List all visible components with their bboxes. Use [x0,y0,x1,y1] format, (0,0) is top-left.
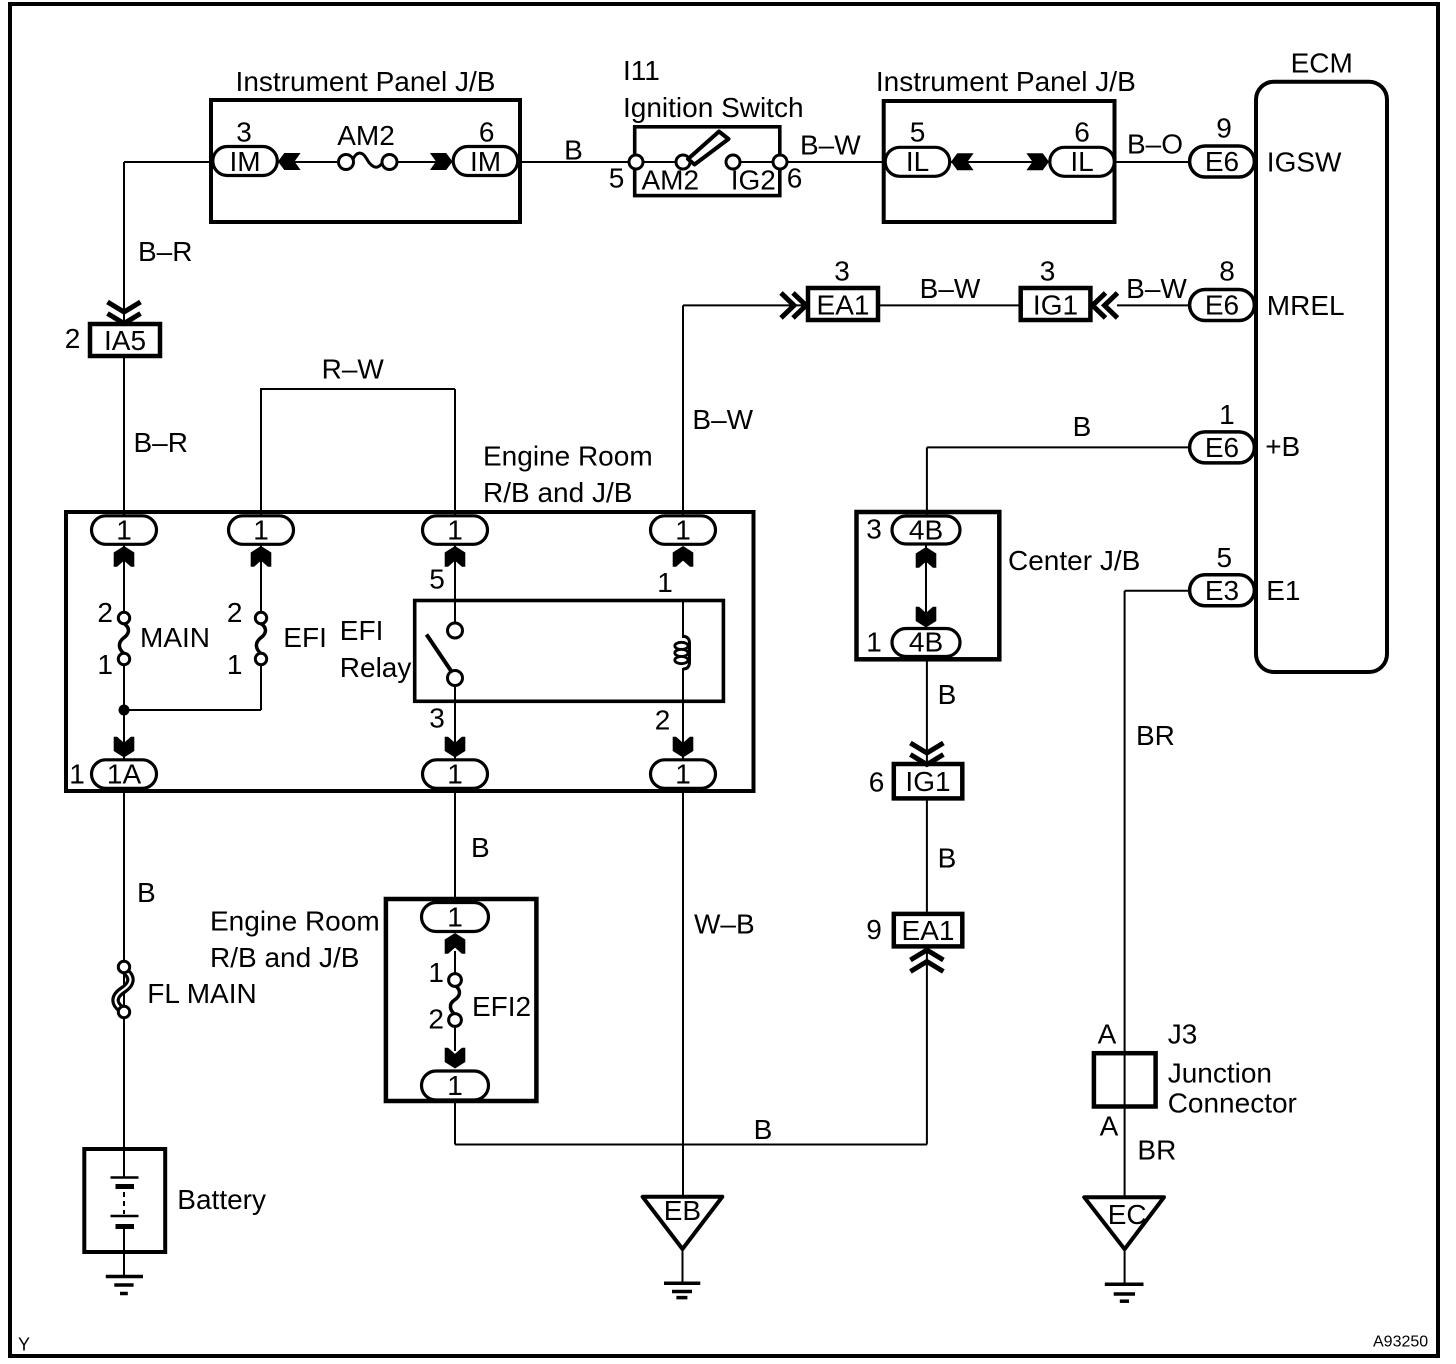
wire (EFI column inside J/B) [260,516,262,710]
svg-text:B: B [137,877,156,908]
svg-text:+B: +B [1265,431,1300,462]
svg-text:3: 3 [236,117,252,148]
connector 1 (relay coil feed) [651,515,716,567]
svg-text:1: 1 [253,515,269,546]
svg-text:Junction: Junction [1168,1057,1272,1088]
svg-text:1: 1 [447,902,463,933]
svg-text:2: 2 [97,597,113,628]
connector 4B pin 3 [866,514,960,568]
svg-text:MREL: MREL [1267,290,1345,321]
svg-text:J3: J3 [1168,1019,1198,1050]
wire B-O (IL pin6 to ECM IGSW) [1114,129,1190,162]
ground (battery) [106,1277,143,1294]
wire B (IM pin6 to ignition switch) [520,135,636,166]
ground EC [1084,1197,1164,1301]
wire B (battery to Engine Room J/B) [124,774,156,1178]
junction block: Center J/B [857,512,1141,659]
wire B-W (IG1 to EA1) [878,273,1021,305]
svg-text:2: 2 [65,323,81,354]
connector 4B pin 1 [866,607,960,658]
svg-text:6: 6 [787,162,803,193]
ECM [1256,47,1387,672]
svg-text:2: 2 [655,705,671,736]
svg-text:1: 1 [866,627,882,658]
battery [84,1149,266,1277]
wire (relay contact column) [454,516,456,760]
connector IG1 pin 6 [869,743,963,798]
svg-text:3: 3 [429,702,445,733]
svg-text:1: 1 [675,759,691,790]
svg-text:R–W: R–W [322,354,385,385]
wire (Center J/B internal) [925,530,927,642]
svg-text:IM: IM [470,146,501,177]
svg-text:IGSW: IGSW [1267,147,1342,178]
svg-text:B–R: B–R [138,236,192,267]
connector EA1 pin 3 (MREL row) [781,255,878,320]
svg-text:R/B and J/B: R/B and J/B [210,942,359,973]
wire (inside right J/B, between IL ovals) [948,161,1051,163]
connector 1 (relay contact out) [423,737,488,790]
svg-text:A: A [1100,1111,1119,1142]
ECM pin 9 E6 IGSW [1190,113,1342,178]
relay: EFI Relay [340,564,724,736]
svg-text:2: 2 [428,1004,444,1035]
fusible link EFI [227,597,327,680]
svg-text:1A: 1A [107,759,142,790]
svg-text:W–B: W–B [694,909,755,940]
svg-text:5: 5 [910,117,926,148]
wire BR (ECM E1 to junction connector J3) [1125,591,1190,1197]
connector 1 (relay contact feed) [423,515,488,567]
fusible link MAIN [97,597,210,680]
svg-text:9: 9 [866,914,882,945]
svg-text:BR: BR [1136,720,1175,751]
wire B (relay contact to EFI2) [455,774,490,917]
wire B (EFI2 to EA1 pin9) [455,946,927,1145]
svg-text:1: 1 [447,1070,463,1101]
svg-text:Relay: Relay [340,652,412,683]
svg-text:Instrument Panel J/B: Instrument Panel J/B [236,66,496,97]
connector IL pin 5 [885,117,973,178]
junction block: Instrument Panel J/B (left) [211,66,520,222]
connector EA1 pin 9 [866,914,962,972]
junction block: Instrument Panel J/B (right) [876,66,1136,222]
ECM pin 8 E6 MREL [1190,255,1345,321]
svg-text:3: 3 [1040,255,1056,286]
svg-text:1: 1 [447,759,463,790]
wire (inside ignition switch) [636,161,780,163]
ECM pin 5 E3 E1 [1190,542,1301,606]
svg-text:IL: IL [906,146,929,177]
wire (MAIN column inside J/B) [123,516,125,760]
svg-text:IA5: IA5 [104,325,146,356]
svg-text:FL MAIN: FL MAIN [147,978,256,1009]
svg-text:Ignition Switch: Ignition Switch [623,92,804,123]
wire B-R (IA5 to Engine Room J/B) [124,358,188,516]
svg-text:IG1: IG1 [905,766,950,797]
svg-text:IG1: IG1 [1033,290,1078,321]
svg-text:EA1: EA1 [817,290,870,321]
svg-text:EB: EB [664,1195,701,1226]
svg-text:5: 5 [429,564,445,595]
junction block: Engine Room R/B and J/B (second) [210,899,536,1101]
svg-text:I11: I11 [623,55,660,86]
svg-text:A: A [1098,1019,1117,1050]
fuse AM2 [337,120,397,170]
svg-text:BR: BR [1137,1135,1176,1166]
svg-text:EFI: EFI [340,615,384,646]
svg-text:3: 3 [834,255,850,286]
junction block: Engine Room R/B and J/B [66,440,754,791]
svg-text:B: B [938,843,957,874]
wire R-W (EFI fuse to relay contact pin5) [260,354,455,530]
svg-text:B: B [471,832,490,863]
svg-text:Engine Room: Engine Room [210,906,380,937]
connector 1 (relay coil out) [651,737,716,790]
connector IG1 pin 3 (MREL row) [1021,255,1118,320]
svg-text:IL: IL [1070,146,1093,177]
wire W-B (relay coil pin2 to ground EB) [683,668,755,1197]
junction connector J3 [1094,1019,1297,1142]
svg-text:1: 1 [447,515,463,546]
svg-text:6: 6 [479,117,495,148]
svg-text:Instrument Panel J/B: Instrument Panel J/B [876,66,1136,97]
svg-text:4B: 4B [909,627,943,658]
wire BR (J3 to ground EC) [1137,1135,1176,1166]
switch I11 Ignition Switch [609,55,804,196]
svg-text:EA1: EA1 [902,915,955,946]
ECM pin 1 E6 +B [1190,399,1301,463]
svg-text:1: 1 [428,957,444,988]
svg-text:5: 5 [609,162,625,193]
junction node (MAIN/EFI link) [119,705,262,716]
svg-text:1: 1 [69,759,85,790]
svg-text:E3: E3 [1205,575,1239,606]
wire (inside left J/B, IM to fuse AM2) [277,161,453,163]
ground EB [643,1195,723,1298]
svg-text:B–W: B–W [800,130,861,161]
svg-text:1: 1 [97,649,113,680]
svg-text:B: B [1073,411,1092,442]
svg-text:AM2: AM2 [337,120,395,151]
svg-text:EFI2: EFI2 [472,991,531,1022]
svg-text:1: 1 [675,515,691,546]
svg-text:E1: E1 [1266,575,1300,606]
svg-text:3: 3 [866,514,882,545]
svg-text:B: B [754,1114,773,1145]
svg-text:9: 9 [1216,113,1232,144]
svg-text:Engine Room: Engine Room [483,440,653,471]
connector IM pin 6 [430,117,518,178]
svg-text:4B: 4B [909,515,943,546]
note Y [18,1335,30,1355]
svg-text:6: 6 [1074,117,1090,148]
wire B-W (ignition switch to IL pin5) [780,130,887,162]
connector 1A pin 1 [69,737,156,790]
svg-text:AM2: AM2 [642,165,700,196]
wire B-W (ECM MREL to IG1) [1117,273,1190,305]
svg-text:B–R: B–R [134,427,188,458]
wire B (Center J/B 4B to IG1) [927,659,956,764]
svg-text:E6: E6 [1205,146,1239,177]
note A93250 [1373,1333,1428,1350]
connector 1 (EFI feed) [229,515,294,567]
svg-text:1: 1 [227,649,243,680]
fusible link EFI2 [428,951,531,1051]
svg-text:6: 6 [869,766,885,797]
svg-text:1: 1 [657,567,673,598]
svg-text:B–W: B–W [920,273,981,304]
svg-text:B–O: B–O [1127,129,1183,160]
svg-text:IM: IM [229,146,260,177]
connector 1 (EFI2 out) [422,1048,489,1101]
connector IM pin 3 [213,117,301,178]
connector 1 (EFI2 in) [422,902,489,954]
svg-text:E6: E6 [1205,290,1239,321]
svg-text:Center J/B: Center J/B [1008,545,1140,576]
svg-text:ECM: ECM [1291,47,1353,78]
connector 1 (MAIN feed) [92,515,157,567]
wire B-R (IM pin3 to IA5) [124,162,213,324]
svg-text:5: 5 [1217,542,1233,573]
svg-text:2: 2 [227,597,243,628]
svg-text:B: B [938,679,957,710]
svg-text:E6: E6 [1205,432,1239,463]
svg-text:A93250: A93250 [1373,1333,1428,1350]
svg-text:B–W: B–W [1126,273,1187,304]
svg-text:B: B [564,135,583,166]
wire B-W (EA1 to relay coil pin1) [683,305,807,530]
svg-text:Battery: Battery [177,1184,266,1215]
svg-text:1: 1 [116,515,132,546]
svg-text:MAIN: MAIN [140,622,210,653]
svg-text:1: 1 [1219,399,1235,430]
svg-text:EFI: EFI [283,622,327,653]
svg-text:Y: Y [18,1335,30,1355]
fusible link FL MAIN [116,961,257,1017]
svg-text:R/B and J/B: R/B and J/B [483,477,632,508]
connector IL pin 6 [1026,117,1114,178]
svg-text:8: 8 [1219,255,1235,286]
svg-text:Connector: Connector [1168,1088,1297,1119]
svg-text:B–W: B–W [692,404,753,435]
wire B (ECM +B to Center J/B) [927,411,1190,517]
wire B (IG1 to EA1) [927,798,956,914]
connector IA5 pin 2 [65,302,160,356]
svg-text:EC: EC [1108,1199,1147,1230]
